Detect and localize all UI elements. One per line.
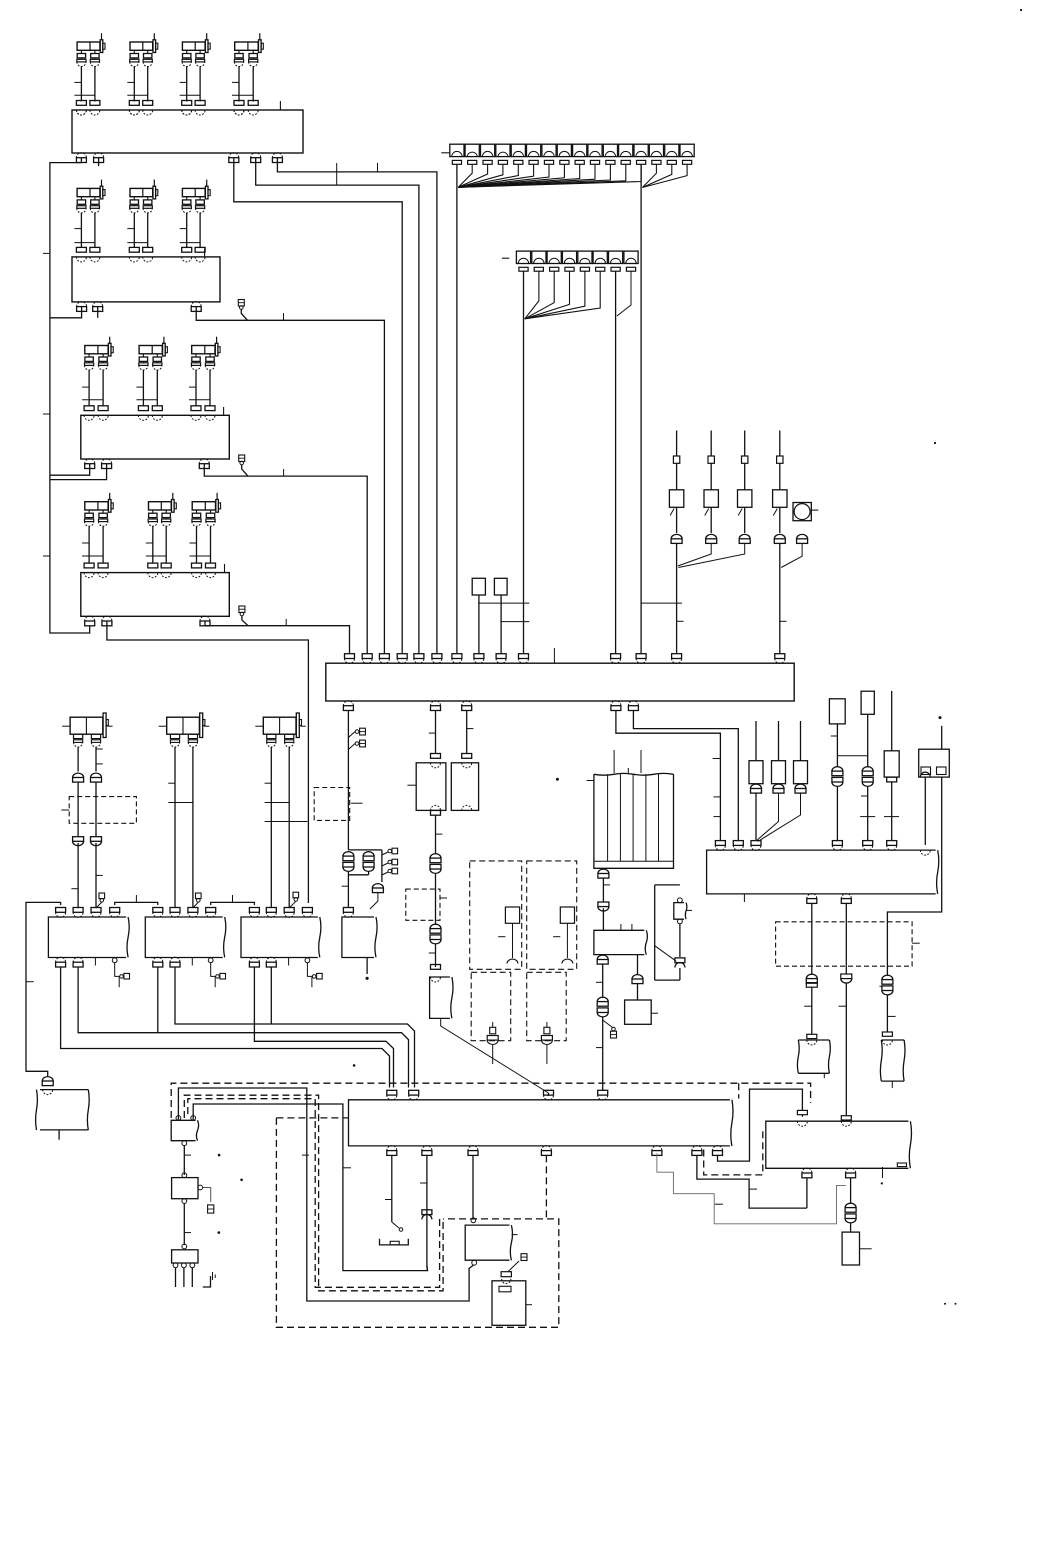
wire [133,67,135,102]
option box 1 [470,861,522,969]
diode box D1 [829,699,845,724]
wire [205,621,350,654]
wire [676,544,678,654]
terminal circle [478,1222,480,1224]
wire [781,544,802,568]
wire [203,1188,211,1203]
wire [43,252,50,254]
wire [836,787,838,841]
inline connector [862,767,873,771]
sensor column S1 [676,431,678,457]
wire [860,1248,872,1250]
wire [426,1266,429,1271]
wire [525,271,570,318]
wire [642,165,671,188]
wire [615,271,617,653]
terminal [285,734,294,738]
wire [525,271,554,318]
terminal [887,777,897,782]
oxygen sensor A [62,713,113,738]
wire [180,81,187,83]
wire [232,81,239,83]
terminal [152,406,162,411]
condenser box [842,1232,859,1265]
shield box big [276,1117,348,1119]
ECU box A [48,917,126,958]
wire [211,902,255,905]
wire [512,923,514,958]
terminal [432,654,442,659]
terminal [76,153,86,158]
wire [458,165,487,188]
terminal [671,534,682,538]
wire [336,163,338,185]
wire [779,544,781,654]
wire [845,903,847,974]
inline connector [806,974,817,978]
terminal [182,110,192,115]
wire [603,884,610,886]
ignition coil 3 [182,33,210,66]
wire [115,963,120,977]
wire [223,407,225,415]
relay box [472,578,485,595]
terminal [802,1168,812,1173]
wire [633,711,738,841]
wire [677,620,684,622]
terminal [409,1090,419,1095]
wire [190,542,197,544]
terminal [182,101,192,106]
terminal [94,153,104,158]
terminal [148,563,158,568]
terminal [153,908,163,913]
terminal [74,734,83,738]
wire [884,816,899,818]
pigtail connector [508,1261,519,1272]
wire [811,987,813,1034]
wire [88,526,90,563]
shield box [314,788,350,821]
terminal [248,101,258,106]
wire [178,1088,473,1301]
wire [127,242,147,244]
wire [616,711,721,841]
terminal [188,908,198,913]
terminal [544,1090,554,1095]
terminal [431,965,441,970]
wire [265,802,290,804]
wire [467,728,474,730]
wire [602,878,604,902]
terminal [562,959,573,963]
terminal [611,654,621,659]
terminal [715,841,725,846]
wire [758,793,801,841]
terminal [452,654,462,659]
wire [234,158,402,654]
connector [680,144,694,164]
terminal [692,1146,702,1151]
terminal circle [182,1244,187,1249]
wire [136,386,143,388]
terminal [632,975,643,979]
wire [391,1155,393,1222]
terminal [636,654,646,659]
wire [115,902,158,905]
terminal [56,957,66,962]
wire [435,874,437,925]
relay box [494,578,507,595]
terminal [345,654,355,659]
terminal [598,869,609,873]
wire [118,976,120,987]
terminal [73,908,83,913]
wire [50,464,107,480]
terminal [234,101,244,106]
terminal [200,616,210,621]
wire [232,895,234,902]
wire [831,735,838,737]
terminal [284,908,294,913]
wire [204,464,367,654]
terminal [85,616,95,621]
terminal [672,654,682,659]
ignition coil 2 [130,33,158,66]
terminal [372,884,383,888]
terminal [249,908,259,913]
wire [77,843,79,908]
terminal [733,841,743,846]
terminal [42,1077,53,1081]
wire [566,923,568,958]
connector [562,251,576,271]
wire [500,621,529,623]
connector stub [544,1027,550,1034]
wire [642,165,656,188]
terminal [192,563,202,568]
inline connector [882,975,893,979]
sensor column S3 [744,431,746,457]
wire [867,787,869,841]
wire [458,165,518,188]
terminal [91,734,100,738]
noise filter [798,1039,829,1041]
terminal [161,563,171,568]
terminal [272,153,282,158]
terminal [205,406,215,411]
terminal [519,654,529,659]
wire [283,469,285,476]
wire [526,1304,532,1306]
wire [780,620,787,622]
terminal [129,247,139,252]
terminal [797,534,808,538]
wire [184,1232,191,1234]
wire [867,714,869,766]
inline connector [598,902,609,907]
wire [806,1178,808,1208]
junction box lower [349,1100,730,1146]
wire [637,955,639,974]
wire [891,782,893,841]
terminal [129,101,139,106]
wire [679,968,681,980]
terminal [387,1090,397,1095]
relay R2 [451,763,478,811]
wire [265,821,308,823]
resistor [755,721,757,761]
wire [82,542,89,544]
terminal [462,701,472,706]
wire [420,1182,427,1184]
terminal circle [112,958,117,963]
terminal [474,654,484,659]
wire [211,963,216,977]
terminal circle [472,1260,477,1265]
shield wire dashed [188,1099,440,1288]
wire [861,795,868,797]
battery [36,1090,90,1130]
option box 2 [527,861,577,969]
terminal [249,957,259,962]
terminal [206,908,216,913]
wire [180,228,187,230]
wire [196,526,198,563]
wire [96,748,103,750]
terminal [153,957,163,962]
wire [458,165,626,188]
inline connector [841,974,852,979]
shield wire dashed [184,1095,443,1291]
ECU box C [241,917,318,958]
ignition coil 12 [148,493,176,526]
pigtail connector [603,1020,613,1028]
wire [715,1203,723,1205]
connector [516,251,530,271]
terminal [598,1090,608,1095]
terminal [267,734,276,738]
terminal [129,110,139,115]
wire [458,165,533,188]
wire [850,1178,852,1203]
terminal [882,1032,892,1036]
wire [478,602,529,604]
shield wire dashed [171,1083,810,1118]
solenoid in box 1 [505,907,519,923]
terminal [387,1146,397,1151]
wire [50,464,90,475]
wire [679,924,681,957]
wire [142,370,144,406]
wire [546,1045,548,1065]
noise filter 2 [881,1039,904,1041]
inline connector [845,1203,856,1207]
wire [602,1017,604,1083]
wire [74,242,95,244]
wire [78,967,408,1088]
connector [578,251,592,271]
wire [602,908,604,930]
wire [242,616,248,626]
wire [180,242,200,244]
dot [1020,9,1022,11]
wire [679,544,745,568]
ignition coil 9 [139,337,168,370]
dot [240,1179,243,1182]
connector [593,251,607,271]
connector box J1 [72,110,303,153]
terminal [76,101,86,106]
wire [256,158,419,654]
wire [302,1154,309,1156]
connector [609,251,623,271]
wire [525,271,585,318]
relay bracket box [766,1121,909,1168]
inline connector [430,854,441,858]
wire [472,1155,474,1217]
connector [542,144,556,164]
terminal [91,908,101,913]
wire main feed [347,711,349,850]
wire [58,1130,60,1140]
wire [80,158,82,163]
wire [697,1155,807,1208]
terminal [462,754,472,759]
relay box K2 [492,1281,526,1326]
wire [941,726,943,749]
relay R1 [416,763,446,811]
wire [277,158,437,654]
wire [199,67,201,102]
terminal [739,534,750,538]
wire [458,165,580,188]
wire [283,313,285,320]
wire [429,732,436,734]
terminal [628,701,638,706]
wire [82,399,103,401]
terminal [652,1146,662,1151]
terminal [199,459,209,464]
wire [602,964,604,997]
terminal [597,955,608,959]
wire [654,885,656,980]
terminal [343,908,353,913]
wire [265,782,272,784]
wire [146,555,166,557]
diode box D2 [861,691,874,714]
terminal [468,1146,478,1151]
wire [886,995,888,1032]
dot [934,442,936,444]
connector rest [380,1239,409,1245]
wire [882,1167,884,1178]
terminal [251,153,261,158]
wire [190,555,211,557]
inline connector [501,1272,511,1277]
wire [525,271,600,318]
terminal [713,1146,723,1151]
wire [458,165,564,188]
wire [850,1223,852,1232]
wire [74,81,81,83]
wire [196,307,384,654]
connector box J4 [81,573,230,617]
wire [88,370,90,406]
wire [80,213,82,248]
wire [596,1047,603,1049]
wire [189,399,210,401]
pigtail connector [239,455,245,462]
wire [525,271,539,318]
connector [619,144,633,164]
terminal [846,1168,856,1173]
terminal [229,153,239,158]
wire [186,213,188,248]
pigtail connector [99,893,105,899]
control unit A [342,917,374,958]
solenoid in box 2 [560,907,574,923]
wire [210,526,212,563]
wire [587,780,594,782]
terminal [541,1146,551,1151]
terminal [84,406,94,411]
wire [441,1018,549,1093]
ignition coil 1 [77,33,105,66]
wire [102,526,104,563]
wire [157,967,159,1033]
ignition coil 7 [182,180,210,213]
terminal [611,701,621,706]
wire [466,711,468,754]
wire [183,1146,185,1175]
wire [801,1115,803,1117]
ignition coil 11 [85,493,114,526]
wire [458,165,549,188]
dot [218,1154,221,1157]
wire [204,249,206,257]
wire [860,816,875,818]
inline connector [430,924,441,928]
terminal [77,302,87,307]
terminal [431,754,441,759]
terminal [170,908,180,913]
pigtail connector [208,1205,214,1213]
terminal [93,302,103,307]
wire [191,958,193,966]
terminal [191,302,201,307]
wire [523,271,525,653]
terminal [266,957,276,962]
wire ground bus [50,163,90,633]
terminal [143,101,153,106]
terminal [397,654,407,659]
terminal [206,563,216,568]
connector [481,144,495,164]
wire [238,67,240,102]
wire [845,983,847,1116]
wire [307,963,312,977]
wire [553,648,555,663]
solenoid box [625,1000,652,1024]
dot [218,1231,221,1234]
terminal [496,654,506,659]
terminal [887,841,897,846]
wire [713,758,721,760]
pigtail connector [392,1222,399,1228]
ignition coil 13 [192,493,221,526]
terminal [90,101,100,106]
